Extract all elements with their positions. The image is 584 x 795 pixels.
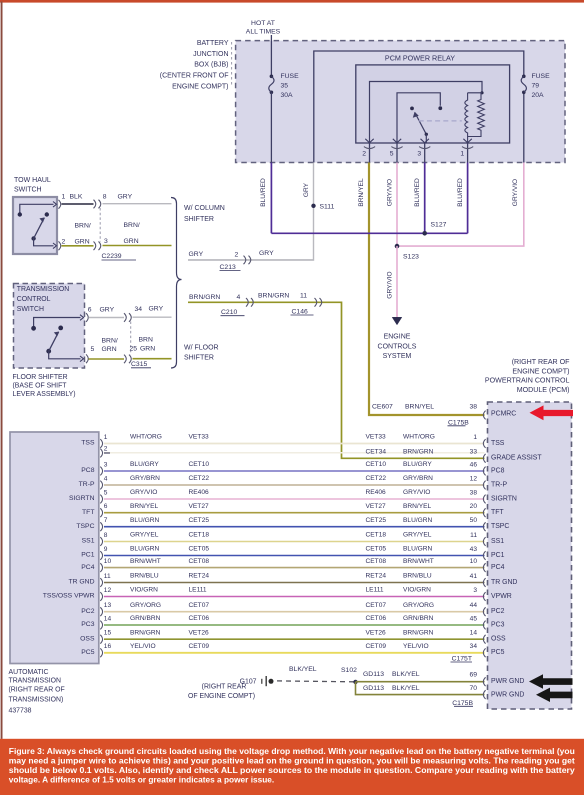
svg-text:GRY/ORG: GRY/ORG: [403, 602, 434, 609]
svg-text:TRANSMISSION: TRANSMISSION: [17, 286, 69, 293]
svg-text:BLK: BLK: [70, 194, 83, 201]
svg-text:(RIGHT REAR: (RIGHT REAR: [202, 684, 247, 691]
red arrow pointing at PCMRC: [530, 405, 574, 420]
svg-text:TOW HAUL: TOW HAUL: [14, 177, 51, 184]
PCM title text: [485, 358, 570, 394]
svg-text:CET18: CET18: [366, 532, 387, 539]
svg-text:CONTROLS: CONTROLS: [378, 344, 417, 351]
wire PC8: CET10 pin 3 to PCM 46: [81, 461, 504, 475]
svg-text:TRANSMISSION: TRANSMISSION: [9, 678, 61, 685]
svg-text:16: 16: [104, 643, 112, 650]
svg-text:3: 3: [473, 587, 477, 594]
svg-text:6: 6: [104, 503, 108, 510]
engine controls system text: [378, 333, 417, 360]
svg-text:TR-P: TR-P: [79, 481, 95, 488]
svg-text:CE607: CE607: [372, 404, 393, 411]
svg-text:BLK/YEL: BLK/YEL: [392, 685, 420, 692]
svg-text:20A: 20A: [532, 92, 545, 99]
svg-text:BRN/YEL: BRN/YEL: [130, 503, 159, 510]
brace selecting column or floor shifter: [171, 198, 182, 369]
wire fuse 35 to BJB bottom: [270, 92, 272, 162]
svg-text:FUSE: FUSE: [281, 73, 300, 80]
svg-text:VIO/GRN: VIO/GRN: [403, 587, 431, 594]
svg-text:BLK/YEL: BLK/YEL: [392, 671, 420, 678]
svg-text:GRY/YEL: GRY/YEL: [403, 532, 432, 539]
transmission control switch symbol: [31, 315, 83, 362]
svg-text:PC8: PC8: [81, 467, 94, 474]
svg-text:BRN/BLU: BRN/BLU: [403, 573, 432, 580]
svg-text:GRY/VIO: GRY/VIO: [130, 489, 157, 496]
svg-text:PC4: PC4: [81, 564, 94, 571]
svg-text:OF ENGINE COMPT): OF ENGINE COMPT): [188, 693, 255, 700]
svg-text:YEL/VIO: YEL/VIO: [130, 643, 156, 650]
svg-text:BOX (BJB): BOX (BJB): [194, 62, 228, 69]
svg-text:GRN/BRN: GRN/BRN: [130, 615, 161, 622]
svg-text:38: 38: [469, 404, 477, 411]
svg-text:BLU/RED: BLU/RED: [414, 178, 421, 207]
svg-text:TSS: TSS: [81, 440, 95, 447]
svg-text:PC8: PC8: [491, 467, 505, 474]
wire feed from HOT AT ALL TIMES to fuse 35: [270, 35, 272, 76]
wire GRY/VIO relay pin5 down to S123: [396, 163, 398, 247]
svg-text:BLU/GRY: BLU/GRY: [403, 461, 432, 468]
svg-text:30A: 30A: [281, 92, 294, 99]
svg-text:TR GND: TR GND: [68, 579, 94, 586]
wire BRN/YEL relay pin2 down to PCMRC row: [369, 163, 485, 416]
wire PC4: CET08 pin 10 to PCM 10: [81, 558, 504, 572]
svg-text:15: 15: [104, 630, 112, 637]
svg-text:BRN/: BRN/: [102, 337, 118, 344]
PWR GND connector arcs and labels: [483, 677, 524, 699]
svg-text:PC3: PC3: [491, 621, 505, 628]
svg-text:PC5: PC5: [491, 649, 505, 656]
svg-text:10: 10: [104, 558, 112, 565]
svg-text:S123: S123: [403, 254, 419, 261]
page left border: [1, 2, 3, 739]
svg-text:S102: S102: [341, 667, 357, 674]
svg-text:1: 1: [104, 434, 108, 441]
svg-text:VET27: VET27: [189, 503, 209, 510]
svg-text:TFT: TFT: [82, 509, 94, 516]
svg-text:GRY: GRY: [100, 306, 115, 313]
svg-text:CONTROL: CONTROL: [17, 296, 51, 303]
svg-text:12: 12: [470, 475, 478, 482]
svg-text:YEL/VIO: YEL/VIO: [403, 643, 429, 650]
svg-text:2: 2: [362, 151, 366, 158]
svg-text:4: 4: [104, 475, 108, 482]
pin 2 stub on transmission box: [100, 445, 110, 457]
relay pin 3 stem: [425, 134, 427, 143]
relay contact dot right: [438, 106, 442, 110]
relay inner box: [356, 65, 510, 143]
svg-text:GRN: GRN: [124, 238, 139, 245]
TCS pin sockets: [86, 313, 88, 322]
svg-text:2: 2: [235, 252, 239, 259]
wire GD113 BLK/YEL to PWR GND 69: [356, 671, 485, 682]
svg-text:BRN/WHT: BRN/WHT: [130, 558, 161, 565]
wire SIGRTN: RE406 pin 5 to PCM 38: [69, 489, 517, 503]
svg-text:S111: S111: [320, 203, 335, 210]
svg-text:79: 79: [532, 83, 540, 90]
svg-text:2: 2: [104, 445, 108, 452]
splice S111: [311, 204, 315, 208]
svg-text:JUNCTION: JUNCTION: [193, 51, 228, 58]
connector C175B bottom: [452, 700, 473, 707]
wire TSPC: CET25 pin 7 to PCM 50: [76, 517, 509, 531]
wire GRY/VIO S123 down to engine controls arrow: [396, 246, 398, 318]
svg-text:BLU/GRN: BLU/GRN: [130, 546, 160, 553]
fuse 79 20A: [521, 73, 550, 99]
wire GRY/VIO fuse79 down and left to S123: [397, 163, 524, 247]
automatic transmission connector box: [10, 432, 99, 664]
tow haul pin sockets: [59, 200, 61, 209]
svg-text:35: 35: [281, 83, 289, 90]
svg-text:WHT/ORG: WHT/ORG: [130, 434, 162, 441]
svg-text:GRY: GRY: [149, 305, 164, 312]
svg-text:C175B: C175B: [452, 700, 473, 707]
svg-text:BRN/YEL: BRN/YEL: [358, 178, 365, 207]
svg-text:34: 34: [470, 643, 478, 650]
svg-text:TR-P: TR-P: [491, 481, 507, 488]
tow haul switch symbol: [18, 202, 57, 249]
relay pin 5 internal wire and rail to contact: [397, 93, 440, 143]
svg-text:C2239: C2239: [102, 253, 122, 260]
svg-text:GRADE ASSIST: GRADE ASSIST: [491, 455, 542, 462]
svg-text:VET26: VET26: [366, 629, 386, 636]
svg-text:TSPC: TSPC: [76, 523, 94, 530]
automatic transmission caption: [9, 669, 65, 715]
svg-text:41: 41: [470, 573, 478, 580]
splice S127: [422, 231, 427, 236]
svg-text:ENGINE COMPT): ENGINE COMPT): [512, 367, 569, 375]
connector C175T: [451, 655, 473, 662]
arrowhead to engine controls system: [392, 317, 402, 325]
svg-text:RET24: RET24: [366, 573, 387, 580]
svg-text:BRN/BLU: BRN/BLU: [130, 573, 159, 580]
svg-text:1: 1: [460, 151, 464, 158]
svg-text:GRY: GRY: [259, 250, 274, 257]
svg-text:RE406: RE406: [189, 489, 209, 496]
svg-text:1: 1: [473, 434, 477, 441]
svg-text:3: 3: [104, 238, 108, 245]
svg-text:CET08: CET08: [189, 558, 210, 565]
wire BLU/RED horizontal S127 bus: [271, 232, 467, 234]
svg-text:TFT: TFT: [491, 509, 504, 516]
black arrow PWR GND 69: [529, 674, 573, 688]
svg-text:BRN/WHT: BRN/WHT: [403, 558, 434, 565]
svg-text:11: 11: [470, 532, 477, 539]
svg-text:TSS/OSS VPWR: TSS/OSS VPWR: [43, 593, 95, 600]
svg-text:AUTOMATIC: AUTOMATIC: [9, 669, 49, 676]
svg-text:14: 14: [470, 630, 478, 637]
svg-text:LEVER ASSEMBLY): LEVER ASSEMBLY): [13, 391, 76, 398]
svg-text:5: 5: [104, 489, 108, 496]
relay coil top bar junction: [480, 91, 483, 94]
svg-text:PC5: PC5: [81, 649, 94, 656]
svg-text:BLU/GRN: BLU/GRN: [403, 546, 433, 553]
svg-text:TSPC: TSPC: [491, 523, 509, 530]
wire GRY brace to S111 drop with connector C213: [188, 259, 314, 261]
caption bar: [0, 739, 584, 795]
svg-text:34: 34: [135, 306, 143, 313]
svg-text:6: 6: [88, 307, 92, 314]
wire GD113 BLK/YEL to PWR GND 70: [356, 682, 485, 695]
svg-text:CET06: CET06: [366, 615, 387, 622]
svg-text:PC3: PC3: [81, 621, 94, 628]
battery junction box (BJB) dashed box: [236, 41, 565, 163]
svg-text:BLU/RED: BLU/RED: [457, 178, 464, 207]
svg-text:70: 70: [469, 685, 477, 692]
ground location text: [188, 684, 255, 700]
svg-text:CET18: CET18: [189, 532, 210, 539]
svg-text:GRY/VIO: GRY/VIO: [512, 179, 519, 206]
svg-text:14: 14: [104, 615, 112, 622]
relay switch arm with arrowhead: [413, 113, 428, 137]
svg-text:PC2: PC2: [491, 608, 505, 615]
black arrow PWR GND 70: [536, 688, 573, 702]
svg-text:RET24: RET24: [189, 573, 210, 580]
wire fuse79 lower / relay right edge to BJB bottom: [523, 92, 525, 162]
svg-text:12: 12: [104, 587, 112, 594]
svg-text:GRY: GRY: [118, 193, 133, 200]
wire BRN/YEL CE607 labels to PCMRC: [372, 404, 477, 427]
svg-text:C210: C210: [221, 309, 237, 316]
svg-text:C213: C213: [220, 264, 236, 271]
svg-text:C315: C315: [131, 361, 147, 368]
svg-text:1: 1: [62, 194, 66, 201]
svg-text:20: 20: [470, 503, 478, 510]
svg-text:GRY/BRN: GRY/BRN: [403, 475, 433, 482]
svg-text:TR GND: TR GND: [491, 579, 517, 586]
wire PC3: CET06 pin 14 to PCM 45: [81, 615, 504, 629]
svg-text:SWITCH: SWITCH: [17, 306, 44, 313]
leader dashes from BJB label to box: [231, 42, 233, 86]
wire BLK tow haul pin1 to C2239: [62, 203, 94, 205]
svg-text:VET33: VET33: [189, 434, 209, 441]
svg-text:BRN: BRN: [139, 336, 153, 343]
page top border: [0, 0, 584, 3]
svg-text:TRANSMISSION): TRANSMISSION): [9, 696, 64, 703]
relay resistor zigzag (right element): [468, 93, 485, 137]
svg-text:FUSE: FUSE: [532, 73, 551, 80]
svg-text:VPWR: VPWR: [491, 593, 512, 600]
svg-text:CET10: CET10: [366, 461, 387, 468]
svg-text:PC4: PC4: [491, 564, 505, 571]
svg-text:25: 25: [130, 345, 138, 352]
wire BRN/GRN tow haul pin2 to C2239: [62, 245, 94, 247]
svg-text:PC1: PC1: [81, 552, 94, 559]
svg-text:ENGINE COMPT): ENGINE COMPT): [172, 84, 228, 91]
wire GRADE ASSIST: CET34 pin - to PCM 33: [366, 449, 543, 463]
svg-text:SS1: SS1: [82, 538, 95, 545]
svg-text:11: 11: [104, 573, 111, 580]
svg-text:SYSTEM: SYSTEM: [383, 353, 412, 360]
svg-text:W/ FLOOR: W/ FLOOR: [184, 345, 219, 352]
svg-text:38: 38: [470, 489, 478, 496]
svg-text:BRN/GRN: BRN/GRN: [258, 292, 289, 299]
wire VPWR: LE111 pin 12 to PCM 3: [43, 587, 512, 601]
svg-text:POWERTRAIN CONTROL: POWERTRAIN CONTROL: [485, 377, 570, 385]
wire BRN/GRN TCS pin5 to C315: [89, 358, 125, 360]
wire GRY TCS pin6 to C315: [89, 317, 125, 319]
svg-text:43: 43: [470, 546, 478, 553]
svg-text:BRN/: BRN/: [124, 222, 140, 229]
svg-text:WHT/ORG: WHT/ORG: [403, 434, 435, 441]
splice S123: [395, 244, 400, 249]
floor shifter caption: [13, 374, 76, 398]
svg-text:W/ COLUMN: W/ COLUMN: [184, 205, 225, 212]
wire GRY TCS to brace: [133, 316, 172, 318]
svg-text:46: 46: [470, 461, 478, 468]
svg-text:GRN/BRN: GRN/BRN: [403, 615, 434, 622]
svg-text:CET25: CET25: [189, 517, 210, 524]
svg-text:BRN/: BRN/: [75, 223, 91, 230]
svg-text:3: 3: [417, 151, 421, 158]
svg-text:GRN: GRN: [75, 239, 90, 246]
svg-text:CET25: CET25: [366, 517, 387, 524]
tow haul switch box: [13, 197, 57, 254]
wire BLU/RED relay pin1 down to S127 line: [467, 163, 469, 234]
svg-text:GRN: GRN: [102, 346, 117, 353]
svg-text:437738: 437738: [9, 708, 32, 715]
wire BRN/GRN brace via C210 and C146 down to GRADE ASSIST: [188, 302, 485, 458]
svg-text:PCMRC: PCMRC: [491, 410, 516, 417]
ground G107: [240, 676, 274, 686]
svg-text:BLK/YEL: BLK/YEL: [289, 666, 317, 673]
svg-text:SWITCH: SWITCH: [14, 186, 42, 193]
wire PC1: CET05 pin 9 to PCM 43: [81, 546, 504, 560]
svg-text:33: 33: [470, 449, 478, 456]
svg-text:GRY/YEL: GRY/YEL: [130, 532, 159, 539]
svg-text:CET22: CET22: [366, 475, 387, 482]
svg-text:GD113: GD113: [363, 671, 384, 678]
svg-text:MODULE (PCM): MODULE (PCM): [517, 386, 570, 394]
svg-text:CET06: CET06: [189, 615, 210, 622]
wire SS1: CET18 pin 8 to PCM 11: [82, 532, 505, 546]
svg-text:OSS: OSS: [80, 635, 95, 642]
svg-text:VIO/GRN: VIO/GRN: [130, 587, 158, 594]
svg-text:C146: C146: [292, 309, 308, 316]
relay pins 2 5 3 1 with arrows and sockets: [362, 139, 473, 163]
svg-text:(RIGHT REAR OF: (RIGHT REAR OF: [512, 358, 570, 366]
wire PC5: CET09 pin 16 to PCM 34: [81, 643, 504, 657]
svg-text:PWR GND: PWR GND: [491, 691, 524, 698]
PCM power relay outer box: [314, 51, 524, 163]
svg-text:CET07: CET07: [189, 602, 210, 609]
svg-text:SHIFTER: SHIFTER: [184, 216, 214, 223]
svg-text:S127: S127: [431, 222, 447, 229]
svg-text:GRY/ORG: GRY/ORG: [130, 602, 161, 609]
svg-text:CET05: CET05: [189, 546, 210, 553]
svg-text:TSS: TSS: [491, 440, 505, 447]
svg-text:8: 8: [104, 532, 108, 539]
wire TFT: VET27 pin 6 to PCM 20: [82, 503, 504, 517]
svg-text:BRN/YEL: BRN/YEL: [405, 404, 434, 411]
svg-text:SIGRTN: SIGRTN: [69, 495, 95, 502]
powertrain control module (PCM) box: [488, 402, 572, 709]
svg-text:ENGINE: ENGINE: [384, 333, 411, 340]
svg-text:BRN/GRN: BRN/GRN: [403, 449, 434, 456]
svg-text:13: 13: [104, 602, 112, 609]
svg-text:RE406: RE406: [366, 489, 386, 496]
svg-text:PWR GND: PWR GND: [491, 678, 524, 685]
relay pin 2 internal wire and rail: [370, 82, 483, 144]
svg-text:GRN: GRN: [140, 345, 155, 352]
transmission control switch title: [17, 286, 69, 313]
svg-text:GD113: GD113: [363, 685, 384, 692]
wire TR GND: RET24 pin 11 to PCM 41: [68, 573, 517, 587]
wire TSS: VET33 pin 1 to PCM 1: [81, 434, 505, 448]
relay mechanical dashed link: [419, 120, 462, 122]
wire BLK/YEL dashed G107 to S102: [277, 680, 354, 683]
node HOT AT ALL TIMES: [246, 20, 281, 35]
svg-text:GRY/BRN: GRY/BRN: [130, 475, 160, 482]
wire GRY relay to S111 to C213 row: [188, 163, 314, 261]
relay contact dot left: [410, 107, 414, 111]
wire BLU/RED fuse35 down to S127 line: [270, 163, 272, 234]
svg-text:GRY/VIO: GRY/VIO: [387, 179, 394, 206]
wire BRN/GRN TCS to brace: [133, 358, 172, 360]
svg-text:9: 9: [104, 546, 108, 553]
svg-text:CET34: CET34: [366, 449, 387, 456]
svg-text:3: 3: [104, 461, 108, 468]
PCMRC connector arc and label: [483, 410, 516, 419]
svg-text:GRY: GRY: [189, 251, 204, 258]
wire pin 2 faint white row: [104, 452, 485, 454]
svg-text:FLOOR SHIFTER: FLOOR SHIFTER: [13, 374, 68, 381]
svg-text:BLU/GRN: BLU/GRN: [403, 517, 433, 524]
svg-text:SIGRTN: SIGRTN: [491, 495, 517, 502]
svg-text:10: 10: [470, 558, 478, 565]
svg-text:GRY: GRY: [303, 182, 310, 197]
svg-text:11: 11: [300, 292, 307, 299]
svg-text:BRN/GRN: BRN/GRN: [189, 294, 220, 301]
svg-text:C175B: C175B: [448, 419, 469, 426]
caption text: [9, 746, 575, 784]
svg-text:VET26: VET26: [189, 629, 209, 636]
svg-text:(RIGHT REAR OF: (RIGHT REAR OF: [9, 687, 65, 694]
BJB label text: [160, 40, 229, 91]
svg-text:OSS: OSS: [491, 636, 506, 643]
wire OSS: VET26 pin 15 to PCM 14: [80, 629, 506, 643]
svg-text:4: 4: [237, 294, 241, 301]
svg-text:CET07: CET07: [366, 602, 387, 609]
svg-text:CET22: CET22: [189, 475, 210, 482]
svg-text:2: 2: [62, 239, 66, 246]
svg-text:ALL TIMES: ALL TIMES: [246, 29, 281, 36]
wire TR-P: CET22 pin 4 to PCM 12: [79, 475, 508, 489]
svg-text:BRN/YEL: BRN/YEL: [403, 503, 432, 510]
svg-text:7: 7: [104, 517, 108, 524]
splice S102: [353, 680, 357, 684]
svg-text:C175T: C175T: [452, 655, 472, 662]
transmission control switch box: [14, 284, 85, 369]
svg-text:CET09: CET09: [189, 643, 210, 650]
svg-text:VET33: VET33: [366, 434, 386, 441]
svg-text:GRY/VIO: GRY/VIO: [387, 271, 394, 298]
svg-text:SS1: SS1: [491, 538, 504, 545]
svg-text:(BASE OF SHIFT: (BASE OF SHIFT: [13, 382, 68, 389]
svg-text:(CENTER FRONT OF: (CENTER FRONT OF: [160, 73, 229, 80]
wire PC2: CET07 pin 13 to PCM 44: [81, 602, 504, 616]
svg-text:BLU/GRY: BLU/GRY: [130, 461, 159, 468]
svg-text:CET09: CET09: [366, 643, 387, 650]
svg-text:HOT AT: HOT AT: [251, 20, 275, 27]
svg-text:VET27: VET27: [366, 503, 386, 510]
wire BRN/GRN tow haul to brace: [103, 245, 172, 247]
svg-text:BLU/GRN: BLU/GRN: [130, 517, 160, 524]
svg-text:voltage. A difference of 1.5: voltage. A difference of 1.5 volts or gr…: [9, 774, 274, 784]
